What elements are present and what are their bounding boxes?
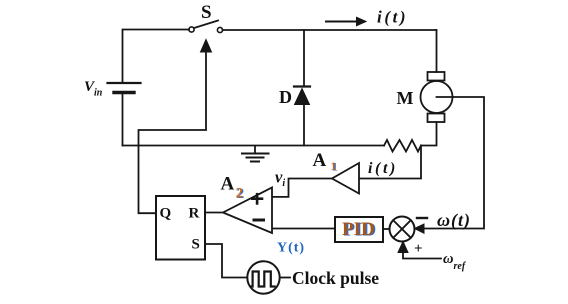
motor M xyxy=(421,72,453,122)
op-amp A1 xyxy=(332,163,359,194)
wire top from switch to motor branch corner xyxy=(223,29,437,31)
arrowhead omega ref xyxy=(398,242,408,253)
op-amp A2 xyxy=(223,188,272,234)
battery Vin xyxy=(108,83,141,93)
svg-text:A: A xyxy=(221,174,235,195)
svg-text:D: D xyxy=(279,87,292,107)
arrow current i(t) top xyxy=(326,17,366,25)
wire PID to summing junction xyxy=(383,228,390,230)
resistor shunt xyxy=(384,140,421,152)
wire bus resistor to motor corner xyxy=(421,122,437,146)
svg-text:S: S xyxy=(192,237,200,253)
wire bottom bus xyxy=(123,145,385,147)
svg-text:i(t): i(t) xyxy=(377,8,408,27)
switch S xyxy=(189,21,223,33)
wire dash clock to label xyxy=(281,277,291,279)
wire A1 output to node vi and op-amp A2 plus input xyxy=(273,179,333,197)
wire motor tacho tap to right and down to summing junction xyxy=(424,97,484,229)
wire current sense tap down to amplifier A1 xyxy=(360,146,422,179)
svg-text:Y(t): Y(t) xyxy=(277,241,305,256)
svg-text:ωref: ωref xyxy=(443,251,467,272)
svg-text:PID: PID xyxy=(342,219,375,240)
label plus input A2 xyxy=(252,194,262,203)
clock pulse source xyxy=(247,261,279,293)
wire diode branch top xyxy=(303,30,305,87)
svg-text:+: + xyxy=(414,241,423,257)
svg-text:M: M xyxy=(397,88,414,108)
PID block xyxy=(335,217,383,242)
arrowhead switch control xyxy=(201,40,212,53)
wire A2 minus input from PID xyxy=(273,228,336,230)
label minus input A2 xyxy=(254,219,264,222)
svg-text:vi: vi xyxy=(275,168,285,190)
wire battery negative down to bottom bus xyxy=(122,93,124,146)
ground xyxy=(242,146,269,162)
diode D xyxy=(294,87,310,105)
svg-text:2: 2 xyxy=(236,186,244,202)
wire flip-flop S pin to clock source xyxy=(205,244,247,278)
wire motor branch top xyxy=(436,30,438,72)
arrowhead omega(t) into summing junction xyxy=(415,224,425,233)
wire diode to bottom bus xyxy=(303,105,305,146)
svg-text:R: R xyxy=(189,206,200,222)
svg-text:Clock pulse: Clock pulse xyxy=(292,268,379,288)
wire A2 output to flip-flop R pin xyxy=(205,212,223,214)
label PID xyxy=(342,219,376,241)
svg-text:A: A xyxy=(313,150,327,171)
wire flip-flop Q output up to switch control arrow xyxy=(139,52,207,213)
svg-text:S: S xyxy=(201,2,212,23)
wire top-left from battery to switch xyxy=(123,30,190,84)
wire omega ref up into summing junction xyxy=(403,252,441,259)
svg-text:Q: Q xyxy=(160,206,172,222)
svg-text:ω(t): ω(t) xyxy=(437,210,471,231)
svg-text:1: 1 xyxy=(331,159,337,173)
minus sign at summing junction xyxy=(417,217,427,219)
summing junction xyxy=(390,217,415,242)
flip-flop SR latch xyxy=(156,196,205,260)
svg-text:i(t): i(t) xyxy=(368,160,398,177)
svg-text:Vin: Vin xyxy=(84,79,103,99)
